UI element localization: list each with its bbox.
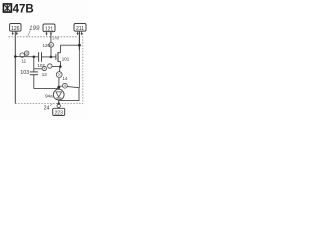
box 211 pins with arrows	[78, 31, 82, 33]
capacitor storage vertical	[33, 57, 35, 72]
svg-text:120: 120	[42, 43, 50, 48]
wire: monitor loop	[59, 87, 79, 101]
wire: gate segment right of cap	[42, 56, 56, 58]
figure title 図47B	[3, 3, 33, 15]
wire: gate row line	[15, 56, 38, 58]
node: junction storage tap	[33, 56, 36, 59]
wire: bus to transistor drain	[61, 44, 80, 46]
contact monitor	[63, 83, 68, 88]
block box 211	[74, 24, 86, 33]
node: junction anode	[57, 86, 60, 89]
label 199 with leader	[28, 25, 40, 37]
node: junction on boundary	[58, 102, 60, 104]
EL element 94a	[53, 89, 64, 100]
wire: anode power bus	[78, 31, 80, 50]
box 121 pins with arrows	[47, 32, 51, 34]
block box 126	[10, 24, 21, 33]
wire: cathode down	[58, 100, 60, 104]
wire: to storage node	[34, 68, 42, 70]
box 126 pins with arrows	[13, 31, 17, 33]
wire: left vertical signal line	[14, 31, 16, 104]
node: junction source node	[59, 65, 62, 68]
capacitor 102	[39, 52, 42, 62]
transistor 101	[56, 52, 61, 62]
svg-text:121: 121	[45, 27, 54, 33]
dashed pixel boundary bottom	[15, 103, 83, 105]
svg-text:102: 102	[37, 63, 45, 68]
svg-text:94a: 94a	[45, 94, 53, 99]
svg-text:199: 199	[29, 25, 40, 32]
block box 121	[43, 24, 55, 33]
svg-text:13: 13	[42, 72, 48, 77]
node: junction on bus	[78, 44, 81, 47]
svg-text:14: 14	[62, 76, 68, 81]
element 14	[59, 67, 61, 72]
svg-text:103: 103	[20, 70, 29, 76]
block box 223	[53, 108, 65, 116]
wire: drain riser	[60, 45, 62, 53]
svg-text:101: 101	[62, 56, 70, 61]
svg-text:140: 140	[52, 36, 60, 41]
wire: to monitor contact	[59, 85, 63, 87]
svg-text:223: 223	[55, 110, 64, 116]
wire: video line down from box 121	[50, 32, 52, 43]
svg-text:11: 11	[22, 59, 27, 64]
terminal cathode	[57, 104, 60, 107]
node: junction left line	[14, 55, 17, 58]
dashed scan line (net 199)	[8, 36, 76, 38]
wire: terminal 120 to gate node	[50, 47, 52, 57]
svg-text:47B: 47B	[13, 3, 34, 15]
wire: bottom of cap to cathode node	[34, 88, 59, 90]
wire: source node left branch	[52, 65, 60, 67]
dashed pixel boundary right	[82, 33, 84, 103]
wire: source down	[60, 62, 62, 67]
terminal 120	[49, 43, 54, 48]
contact pair 13	[20, 53, 24, 57]
node: junction gate	[50, 56, 53, 59]
contact pair 103	[48, 64, 52, 68]
svg-text:24: 24	[44, 106, 50, 112]
